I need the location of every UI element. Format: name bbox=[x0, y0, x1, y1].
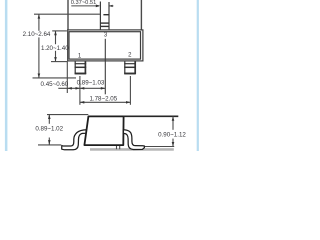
svg-text:0.89~1.03: 0.89~1.03 bbox=[77, 80, 105, 87]
right table border (blue) bbox=[197, 0, 199, 151]
dim row1 line bbox=[58, 87, 105, 89]
middle lead stub under body bbox=[116, 146, 118, 149]
left table border (blue) bbox=[5, 0, 8, 151]
gray seating band bbox=[90, 148, 174, 151]
pin1 body bbox=[75, 61, 87, 74]
pin3 tab bend line 1 bbox=[100, 22, 109, 24]
svg-text:1.78~2.05: 1.78~2.05 bbox=[89, 96, 117, 103]
pin3 tab bend line 2 bbox=[100, 25, 109, 27]
dim row2 line bbox=[80, 101, 130, 103]
left lead (gull wing) bbox=[62, 130, 87, 150]
dim leader 0.37~0.51 with right arrow bbox=[71, 5, 99, 7]
svg-text:1.20~1.40: 1.20~1.40 bbox=[41, 45, 69, 52]
extension line body-right up to top (cropped dim) bbox=[140, 0, 142, 30]
body (side view) bbox=[84, 116, 123, 145]
svg-text:0.37~0.51: 0.37~0.51 bbox=[71, 0, 96, 6]
dim line 1.20~1.40 vertical (lower) bbox=[55, 51, 57, 62]
ext line top-right (0.90~1.12) bbox=[123, 115, 178, 117]
pin3 tab top edge bbox=[103, 14, 109, 16]
pin3 centerline down through body bbox=[104, 39, 106, 95]
dim 0.89~1.02 vertical upper bbox=[48, 115, 50, 124]
extension line body-bottom for 1.20~1.40 bbox=[51, 61, 67, 63]
extension line at pin-bottom level bbox=[33, 77, 77, 79]
svg-text:3: 3 bbox=[104, 33, 108, 39]
seating line right bbox=[145, 146, 175, 148]
pin2 centerline extension down bbox=[129, 76, 131, 105]
svg-text:0.90~1.12: 0.90~1.12 bbox=[158, 132, 186, 139]
body inner rectangle bbox=[69, 32, 141, 59]
dim 0.90~1.12 vertical upper bbox=[172, 116, 174, 129]
svg-text:2: 2 bbox=[128, 52, 132, 58]
ext line top-left (0.89~1.02) bbox=[47, 114, 88, 116]
svg-text:0.89~1.02: 0.89~1.02 bbox=[35, 126, 63, 133]
extension line body-top for 1.20~1.40 bbox=[52, 30, 67, 32]
dim 0.90~1.12 vertical lower bbox=[172, 139, 174, 147]
dim line 2.10~2.64 vertical (upper) bbox=[38, 14, 40, 31]
dim line 1.20~1.40 vertical (upper) bbox=[55, 31, 57, 44]
pin3 tab left edge / extension bbox=[99, 2, 101, 31]
dim line 2.10~2.64 vertical (lower) bbox=[38, 37, 40, 78]
pin1 centerline extension down bbox=[79, 76, 81, 105]
pin3 tab right edge / extension bbox=[108, 2, 110, 30]
body-left extension down bbox=[66, 62, 68, 94]
ext line bottom-left seating bbox=[38, 144, 61, 146]
extension line body-left up to top (cropped dim) bbox=[67, 0, 69, 30]
svg-text:2.10~2.64: 2.10~2.64 bbox=[23, 31, 51, 38]
extension line at tab-top level for 2.10~2.64 bbox=[34, 13, 100, 15]
dim tail right of tab with left arrow bbox=[109, 5, 113, 7]
dim 0.89~1.02 vertical lower bbox=[48, 138, 50, 145]
svg-text:0.45~0.60: 0.45~0.60 bbox=[41, 81, 69, 88]
body outer rectangle bbox=[68, 30, 143, 61]
pin2 body bbox=[124, 61, 136, 74]
arrows row1 bbox=[67, 87, 71, 90]
right lead (gull wing) bbox=[123, 130, 144, 150]
